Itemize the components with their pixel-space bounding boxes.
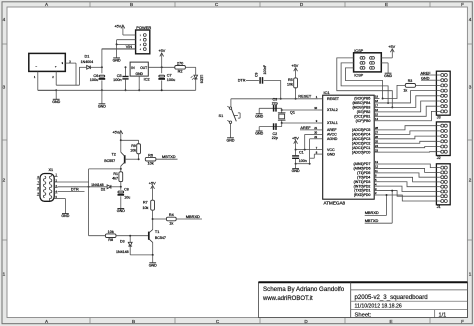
svg-text:1: 1 [469, 272, 472, 277]
wire RESET [231, 94, 318, 99]
crystal Q1 [278, 110, 295, 123]
wire RESET-ICSP [345, 68, 383, 100]
power +5V [149, 182, 156, 201]
wire [116, 235, 148, 237]
wire AREF [300, 126, 318, 130]
svg-text:100u: 100u [90, 78, 98, 82]
svg-text:+5V: +5V [114, 25, 121, 29]
wire [380, 131, 437, 134]
ground [113, 44, 121, 62]
svg-text:GND: GND [149, 263, 157, 267]
svg-text:25: 25 [375, 139, 378, 143]
svg-text:AREF: AREF [300, 126, 311, 130]
svg-text:+5V: +5V [158, 49, 165, 53]
wire MBTXD [365, 190, 394, 224]
svg-text:~: ~ [35, 65, 37, 69]
svg-text:22: 22 [314, 135, 317, 139]
wire [383, 85, 406, 98]
svg-text:(SCK)PB5: (SCK)PB5 [354, 97, 370, 101]
svg-text:C1: C1 [299, 150, 304, 154]
title block [259, 282, 468, 318]
svg-text:15: 15 [375, 113, 378, 117]
svg-text:(RXD)PD0: (RXD)PD0 [354, 193, 371, 197]
svg-text:J2: J2 [437, 156, 441, 160]
capacitor C2 22p [259, 123, 282, 140]
wire [380, 177, 437, 182]
svg-text:www.adriROBOT.it: www.adriROBOT.it [262, 296, 313, 302]
svg-text:T2: T2 [111, 153, 115, 157]
wire [102, 48, 136, 50]
capacitor C3 22p [259, 97, 282, 111]
svg-text:S1: S1 [219, 114, 224, 118]
connector J2 [436, 122, 450, 160]
svg-text:GND: GND [255, 114, 263, 118]
svg-text:13: 13 [375, 160, 378, 164]
svg-text:R6: R6 [148, 153, 153, 157]
svg-text:(ADC0)PC0: (ADC0)PC0 [352, 150, 371, 154]
svg-text:+5V: +5V [292, 137, 299, 141]
wire MBRXD [176, 214, 202, 219]
wire AREF [420, 71, 436, 75]
wire [380, 106, 437, 116]
svg-text:F: F [461, 319, 464, 324]
wire [153, 218, 167, 220]
svg-text:(ADC5)PC5: (ADC5)PC5 [352, 128, 371, 132]
svg-text:GND: GND [227, 138, 235, 142]
svg-text:OUT: OUT [140, 66, 147, 70]
svg-text:AGND: AGND [327, 137, 338, 141]
svg-text:4k7: 4k7 [112, 176, 118, 180]
svg-text:R2: R2 [178, 70, 183, 74]
svg-text:(OC1)PB1: (OC1)PB1 [354, 114, 370, 118]
power +5V [158, 49, 165, 67]
power +5V [114, 25, 124, 35]
capacitor C9 100nF DTR-RESET [238, 65, 282, 100]
svg-text:17: 17 [375, 104, 378, 108]
svg-text:Q1: Q1 [290, 111, 295, 115]
wire [380, 182, 437, 187]
svg-text:16: 16 [375, 108, 378, 112]
resistor R2 270 [175, 62, 186, 74]
svg-text:GND: GND [384, 74, 392, 78]
resistor R4 1k [166, 213, 176, 225]
svg-text:100n: 100n [113, 78, 121, 82]
svg-text:R3: R3 [408, 79, 413, 83]
svg-text:GND: GND [136, 72, 144, 76]
svg-text:AREF: AREF [421, 71, 432, 75]
svg-text:(T1)PD5: (T1)PD5 [357, 171, 370, 175]
wire [380, 126, 437, 130]
svg-text:VIN: VIN [126, 45, 133, 49]
wire bus [88, 169, 90, 236]
wire [121, 140, 139, 144]
wire [380, 91, 437, 103]
diode D3 1N4148 [116, 236, 153, 255]
svg-text:E: E [389, 319, 392, 324]
svg-text:C7: C7 [167, 74, 172, 78]
svg-text:C9: C9 [254, 73, 258, 77]
svg-text:(SS)PB2: (SS)PB2 [357, 110, 371, 114]
resistor R3 1k [403, 79, 415, 93]
power +5V [388, 45, 395, 58]
wire [380, 147, 437, 148]
ground [384, 73, 392, 78]
wire [89, 235, 106, 237]
transistor T1 BC547 [149, 219, 166, 256]
wire XTAL2 [281, 109, 318, 111]
resistor R1 4k7 [112, 172, 122, 188]
svg-text:D1: D1 [84, 54, 89, 58]
svg-text:10k: 10k [108, 230, 114, 234]
svg-text:MBTXD: MBTXD [365, 218, 379, 223]
svg-text:AVCC: AVCC [327, 133, 337, 137]
capacitor C6 100u [90, 67, 105, 91]
svg-text:F: F [461, 2, 464, 7]
svg-text:(ICP)PB0: (ICP)PB0 [356, 119, 371, 123]
connector J1 [436, 164, 450, 209]
svg-text:1: 1 [3, 272, 6, 277]
svg-text:11/10/2012 18.18.26: 11/10/2012 18.18.26 [355, 303, 402, 309]
svg-text:D3: D3 [120, 240, 125, 244]
svg-text:ICSP: ICSP [354, 48, 363, 53]
wire +5V out [148, 66, 175, 68]
wire [381, 57, 392, 59]
svg-text:R1: R1 [113, 172, 118, 176]
svg-text:GND: GND [98, 104, 106, 108]
ground [255, 127, 263, 136]
svg-text:21: 21 [314, 126, 317, 130]
svg-text:18: 18 [375, 99, 378, 103]
connector J3 [436, 71, 450, 119]
svg-text:(TXD)PD1: (TXD)PD1 [354, 189, 370, 193]
svg-text:4: 4 [3, 17, 6, 22]
wire [296, 163, 310, 165]
wire VIN [102, 45, 136, 67]
svg-text:100u: 100u [167, 78, 175, 82]
svg-text:J1: J1 [437, 205, 441, 209]
svg-text:1N4148: 1N4148 [116, 250, 129, 254]
svg-text:B: B [130, 2, 133, 7]
svg-text:R8: R8 [108, 238, 113, 242]
svg-text:DTR: DTR [71, 187, 79, 191]
resistor R6 10k [145, 153, 156, 165]
svg-text:+5V: +5V [388, 45, 395, 49]
svg-text:+5V: +5V [112, 130, 119, 134]
svg-text:R4: R4 [169, 213, 174, 217]
node VIN [101, 66, 103, 68]
resistor R5 10k [287, 78, 297, 100]
svg-text:14: 14 [375, 117, 378, 121]
svg-text:GND: GND [113, 59, 121, 63]
capacitor C1 100n [292, 150, 307, 165]
svg-text:POWER: POWER [136, 25, 151, 30]
node [120, 139, 122, 141]
svg-text:Sheet:: Sheet: [355, 313, 372, 319]
svg-text:22p: 22p [272, 136, 278, 140]
wire [116, 40, 136, 46]
wire [381, 63, 388, 73]
svg-text:3: 3 [3, 85, 6, 90]
svg-text:XTAL2: XTAL2 [327, 108, 338, 112]
resistor R7 10k [143, 200, 155, 220]
power +5V [291, 64, 298, 79]
svg-text:RESET: RESET [327, 97, 340, 101]
svg-text:(AIN0)PD6: (AIN0)PD6 [353, 167, 370, 171]
svg-text:28: 28 [375, 126, 378, 130]
svg-text:23: 23 [375, 148, 378, 152]
svg-text:ICSP: ICSP [354, 72, 363, 77]
svg-text:10u: 10u [124, 196, 130, 200]
wire [380, 136, 437, 139]
ground [227, 138, 235, 143]
wire SCK [341, 63, 389, 104]
svg-text:MBRXD: MBRXD [186, 214, 200, 219]
wire [120, 169, 122, 172]
svg-text:10: 10 [314, 106, 317, 110]
wire MBRXD [365, 194, 388, 215]
wire GND net [421, 77, 436, 81]
transistor T2 BC557 [104, 140, 138, 170]
resistor R9 10k [130, 144, 140, 160]
svg-text:1k: 1k [169, 221, 173, 225]
svg-text:X1: X1 [48, 168, 53, 172]
svg-text:19: 19 [375, 95, 378, 99]
microcontroller IC1 ATMEGA8 [314, 90, 379, 206]
svg-text:1N4004: 1N4004 [81, 60, 94, 64]
svg-text:10k: 10k [148, 162, 154, 166]
svg-text:R9: R9 [131, 144, 136, 148]
wire [380, 186, 437, 191]
svg-text:1k: 1k [403, 88, 407, 92]
svg-text:2: 2 [3, 178, 6, 183]
svg-text:3: 3 [469, 85, 472, 90]
svg-text:p2005-v2_3_squaredboard: p2005-v2_3_squaredboard [355, 294, 428, 301]
svg-text:22p: 22p [272, 101, 278, 105]
svg-text:E: E [385, 2, 388, 7]
capacitor C8 10u [118, 187, 131, 210]
diode D2 1N4148 [89, 183, 121, 192]
svg-text:MBTXD: MBTXD [162, 154, 176, 159]
wire [89, 168, 121, 170]
svg-text:R7: R7 [143, 200, 148, 204]
svg-text:(INT0)PD2: (INT0)PD2 [354, 184, 371, 188]
wire [380, 191, 437, 197]
svg-text:24: 24 [375, 144, 378, 148]
svg-text:(ADC4)PC4: (ADC4)PC4 [352, 132, 371, 136]
power +5V [292, 137, 299, 150]
svg-text:10k: 10k [287, 83, 293, 87]
svg-text:GND: GND [327, 152, 335, 156]
svg-text:1N4148: 1N4148 [91, 183, 104, 187]
svg-text:12: 12 [375, 165, 378, 169]
wire [380, 101, 437, 112]
wire VCC [296, 149, 318, 151]
wire [380, 96, 437, 108]
connector X2 power jack [29, 53, 75, 79]
svg-text:C8: C8 [124, 188, 129, 192]
svg-text:XTAL1: XTAL1 [327, 121, 338, 125]
svg-text:10k: 10k [143, 206, 149, 210]
svg-text:MBRXD: MBRXD [365, 210, 379, 215]
power +5V [112, 130, 122, 140]
svg-text:VCC: VCC [327, 148, 335, 152]
svg-text:(T0)PD4: (T0)PD4 [357, 175, 370, 179]
wire [380, 164, 437, 168]
svg-text:T1: T1 [155, 230, 159, 234]
svg-text:+: + [55, 65, 57, 69]
LED3 [191, 75, 204, 91]
svg-text:1/1: 1/1 [439, 313, 447, 319]
svg-text:100nF: 100nF [263, 65, 267, 75]
svg-text:GND: GND [61, 214, 69, 218]
svg-text:RESET: RESET [298, 94, 312, 99]
wire XTAL1 [281, 122, 318, 124]
ground [52, 89, 60, 104]
wire [38, 77, 56, 90]
wire [58, 181, 89, 183]
wire [416, 84, 437, 86]
svg-text:LED3: LED3 [200, 75, 204, 84]
svg-text:ATMEGA8: ATMEGA8 [324, 201, 346, 206]
svg-text:GND: GND [52, 100, 60, 104]
svg-text:(AIN1)PD7: (AIN1)PD7 [353, 162, 370, 166]
svg-text:R5: R5 [288, 78, 293, 82]
ground [292, 164, 300, 174]
wire [380, 168, 437, 172]
connector POWER header [136, 25, 152, 54]
svg-text:4: 4 [469, 17, 472, 22]
capacitor C5 100n [113, 66, 128, 91]
svg-text:D2: D2 [101, 188, 106, 192]
wire [380, 111, 437, 120]
wire [380, 141, 437, 143]
wire MBTXD [156, 154, 178, 159]
wire ground rail [38, 89, 196, 91]
svg-text:270: 270 [177, 62, 183, 66]
node [295, 149, 297, 151]
wire [56, 63, 79, 85]
svg-text:100n: 100n [299, 159, 307, 163]
wire vin-stub [101, 48, 103, 50]
connector ICSP header [354, 48, 382, 78]
capacitor C7 100u [158, 67, 175, 91]
ground [117, 209, 125, 214]
svg-text:GND: GND [421, 77, 430, 81]
svg-text:GND: GND [255, 132, 263, 136]
svg-text:J3: J3 [437, 116, 441, 120]
wire DTR stub [58, 187, 85, 191]
svg-text:IC2: IC2 [144, 78, 150, 82]
svg-text:GND: GND [292, 169, 300, 173]
switch S1 [219, 99, 241, 138]
svg-text:10k: 10k [130, 148, 136, 152]
ground [58, 199, 70, 219]
svg-text:BC547: BC547 [155, 236, 166, 240]
wire [123, 34, 136, 36]
svg-text:DTR: DTR [238, 79, 246, 83]
svg-text:BC557: BC557 [104, 159, 115, 163]
regulator IC2 [130, 62, 150, 91]
svg-text:20: 20 [314, 131, 317, 135]
svg-text:(ADC2)PC2: (ADC2)PC2 [352, 141, 371, 145]
svg-text:IC1: IC1 [324, 90, 331, 95]
svg-text:B: B [132, 319, 135, 324]
ground [98, 90, 106, 108]
svg-text:(INT1)PD3: (INT1)PD3 [354, 180, 371, 184]
diode D1 1N4004 [79, 54, 102, 69]
wire [380, 173, 437, 177]
svg-text:27: 27 [375, 131, 378, 135]
ground [149, 255, 157, 268]
svg-text:+5V: +5V [291, 64, 298, 68]
wire [185, 67, 195, 75]
svg-text:+5V: +5V [149, 182, 156, 186]
resistor R8 10k [105, 230, 116, 242]
svg-text:(MOSI)PB3: (MOSI)PB3 [352, 106, 370, 110]
wire AGND [309, 139, 318, 165]
wire [380, 151, 437, 153]
svg-text:(MISO)PB4: (MISO)PB4 [352, 101, 370, 105]
svg-text:Schema By Adriano Gandolfo: Schema By Adriano Gandolfo [263, 286, 345, 293]
svg-text:26: 26 [375, 135, 378, 139]
wire GND pin [310, 154, 318, 158]
wire [380, 195, 437, 201]
svg-text:(ADC1)PC1: (ADC1)PC1 [352, 146, 371, 150]
connector X1 DB9 [37, 168, 58, 202]
wire MISO [337, 58, 394, 109]
wire AVCC [305, 134, 318, 149]
svg-text:(ADC3)PC3: (ADC3)PC3 [352, 137, 371, 141]
ground [255, 108, 263, 118]
svg-text:GND: GND [117, 209, 125, 213]
wire [58, 186, 90, 188]
svg-text:AREF: AREF [327, 128, 337, 132]
svg-text:2: 2 [469, 178, 472, 183]
